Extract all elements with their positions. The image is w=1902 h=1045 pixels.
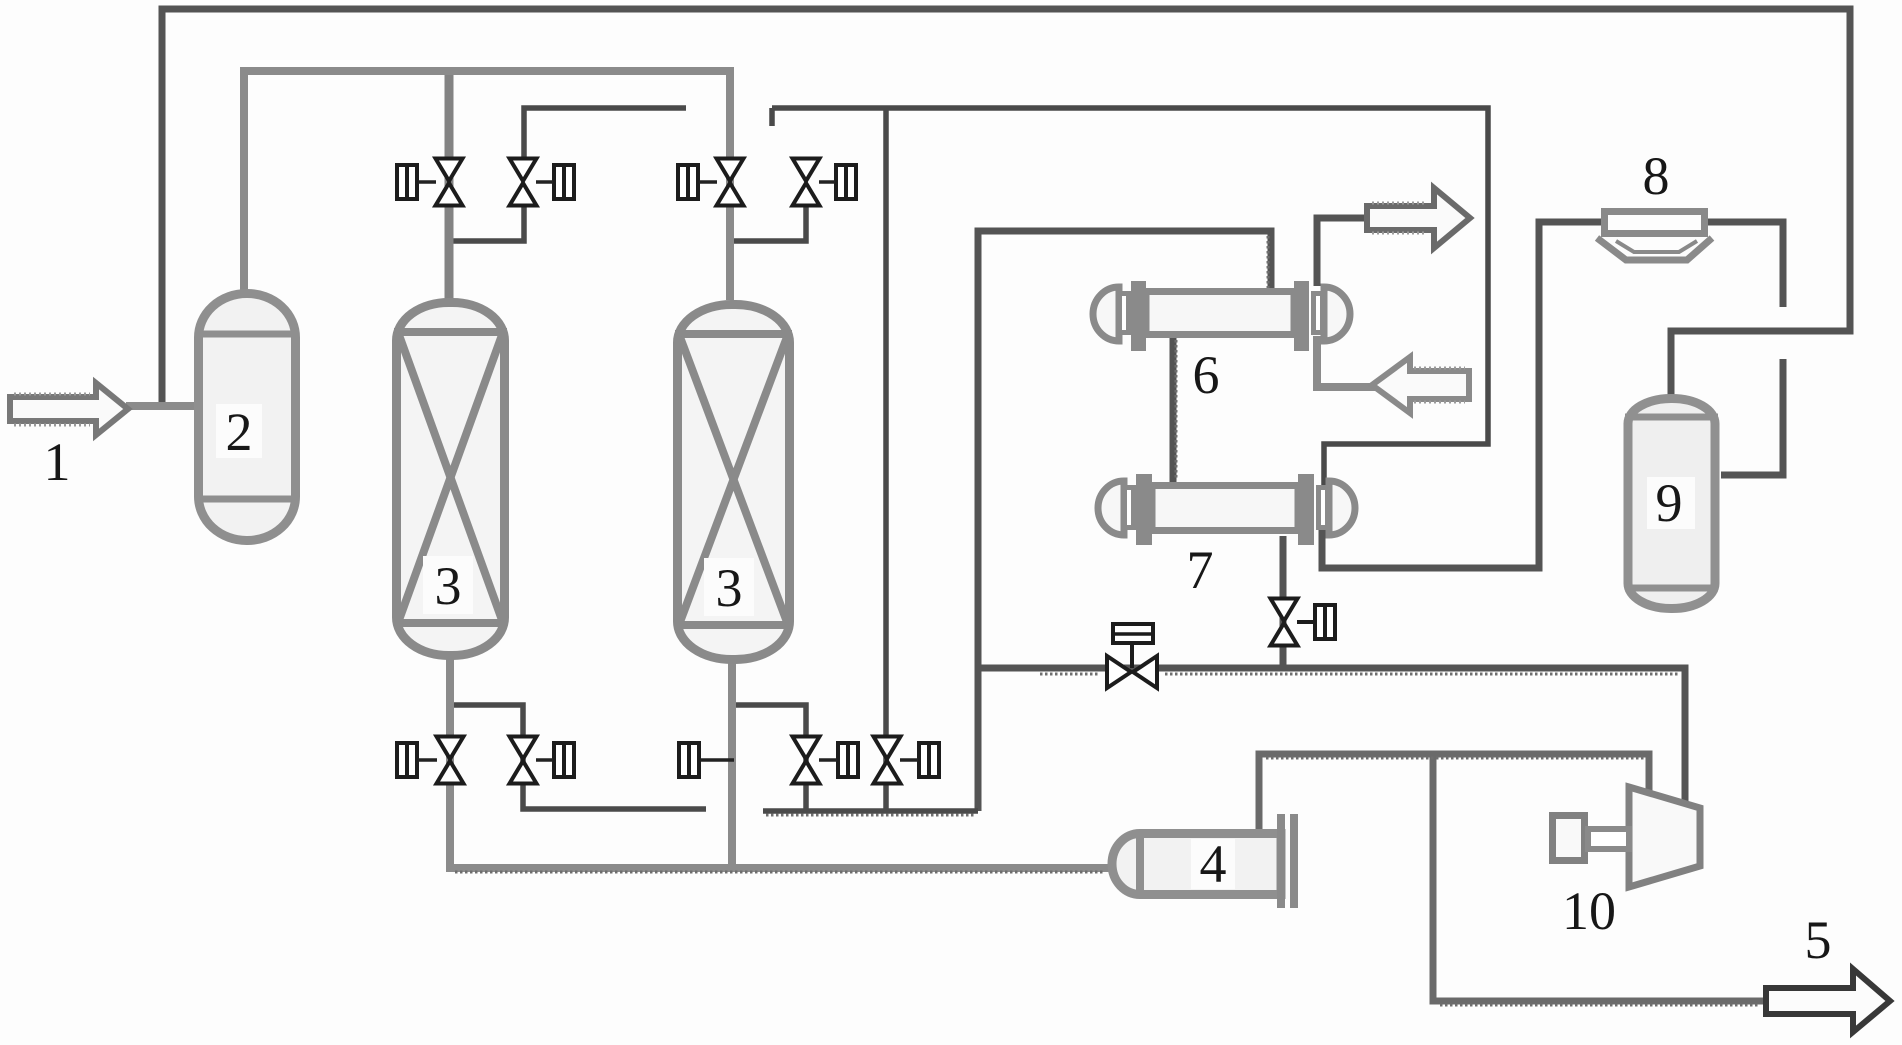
- svg-text:1: 1: [44, 432, 71, 492]
- svg-text:7: 7: [1187, 540, 1214, 600]
- svg-text:10: 10: [1562, 881, 1616, 941]
- svg-text:5: 5: [1805, 910, 1832, 970]
- svg-text:3: 3: [716, 558, 743, 618]
- svg-text:3: 3: [435, 556, 462, 616]
- svg-text:2: 2: [226, 402, 253, 462]
- svg-text:6: 6: [1193, 345, 1220, 405]
- svg-text:9: 9: [1656, 473, 1683, 533]
- svg-text:8: 8: [1643, 146, 1670, 206]
- svg-text:4: 4: [1200, 834, 1227, 894]
